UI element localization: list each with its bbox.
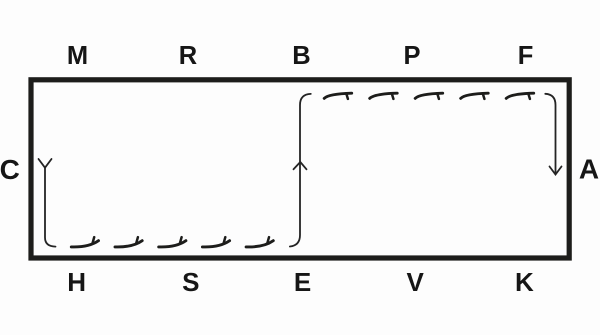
start leg: line from C down to bottom track [45, 168, 56, 247]
svg-text:V: V [407, 267, 425, 297]
up arrowhead on E centerline [294, 162, 307, 169]
arena rail (border rectangle) [31, 80, 569, 258]
svg-text:F: F [518, 42, 534, 70]
svg-text:S: S [182, 267, 199, 297]
svg-text:E: E [294, 267, 311, 297]
svg-text:C: C [0, 154, 20, 185]
stride mark 2 (bottom track) [115, 237, 142, 247]
finish turn near F: curve down toward A [545, 94, 555, 174]
svg-text:R: R [179, 42, 197, 70]
stride mark 4 (bottom track) [202, 237, 229, 247]
stride mark 4 (top track) [461, 93, 489, 99]
svg-text:H: H [67, 267, 86, 297]
turn up at E: curve from bottom track into centerline and into top track [290, 94, 311, 247]
stride mark 2 (top track) [370, 93, 398, 99]
stride mark 1 (top track) [324, 93, 352, 99]
svg-text:B: B [292, 42, 310, 70]
svg-text:A: A [579, 154, 599, 185]
stride mark 1 (bottom track) [71, 237, 98, 247]
stride mark 5 (top track) [506, 93, 534, 99]
svg-text:K: K [515, 267, 534, 297]
svg-text:M: M [67, 42, 88, 70]
start marker fork at C [39, 159, 52, 168]
finish arrowhead pointing down at A [550, 167, 562, 175]
svg-text:P: P [403, 42, 420, 70]
stride mark 3 (top track) [415, 93, 443, 99]
stride mark 5 (bottom track) [246, 237, 273, 247]
stride mark 3 (bottom track) [159, 237, 186, 247]
